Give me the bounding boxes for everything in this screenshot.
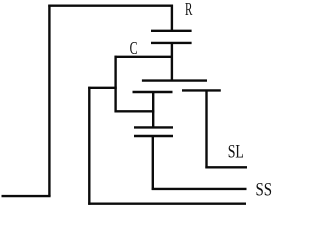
wire: left tall vertical	[48, 5, 50, 197]
wire: bottom-left horizontal	[2, 195, 51, 197]
wire: mid horizontal from C vertical	[115, 110, 155, 112]
capacitor upper plate	[134, 126, 173, 128]
wire: left-mid vertical branch	[88, 87, 90, 205]
wire: C horizontal	[115, 56, 173, 58]
element R lower plate	[151, 42, 192, 44]
node bar row2 left plate	[133, 91, 173, 93]
svg-text:SL: SL	[228, 142, 244, 163]
node bar row2 right plate	[182, 89, 221, 91]
wire: vertical from top bus to element R	[171, 5, 173, 31]
wire: C vertical	[114, 56, 116, 113]
wire: vertical below capacitor	[152, 136, 154, 190]
node bar row1 (T-bar)	[142, 79, 207, 81]
wire: top horizontal bus	[48, 4, 173, 6]
wire: long bottom horizontal	[88, 202, 246, 204]
svg-text:C: C	[130, 38, 138, 58]
capacitor lower plate	[134, 135, 173, 137]
wire: SL horizontal	[205, 166, 247, 168]
wire: SS horizontal	[152, 188, 247, 190]
wire: mid vertical under row2 left plate	[152, 92, 154, 127]
svg-text:SS: SS	[256, 181, 273, 201]
wire: short horizontal to left branch	[88, 87, 117, 89]
svg-text:R: R	[185, 0, 192, 19]
element R upper plate	[151, 30, 192, 32]
wire: SL vertical	[205, 90, 207, 168]
wire: vertical from element R down to bar	[171, 43, 173, 81]
